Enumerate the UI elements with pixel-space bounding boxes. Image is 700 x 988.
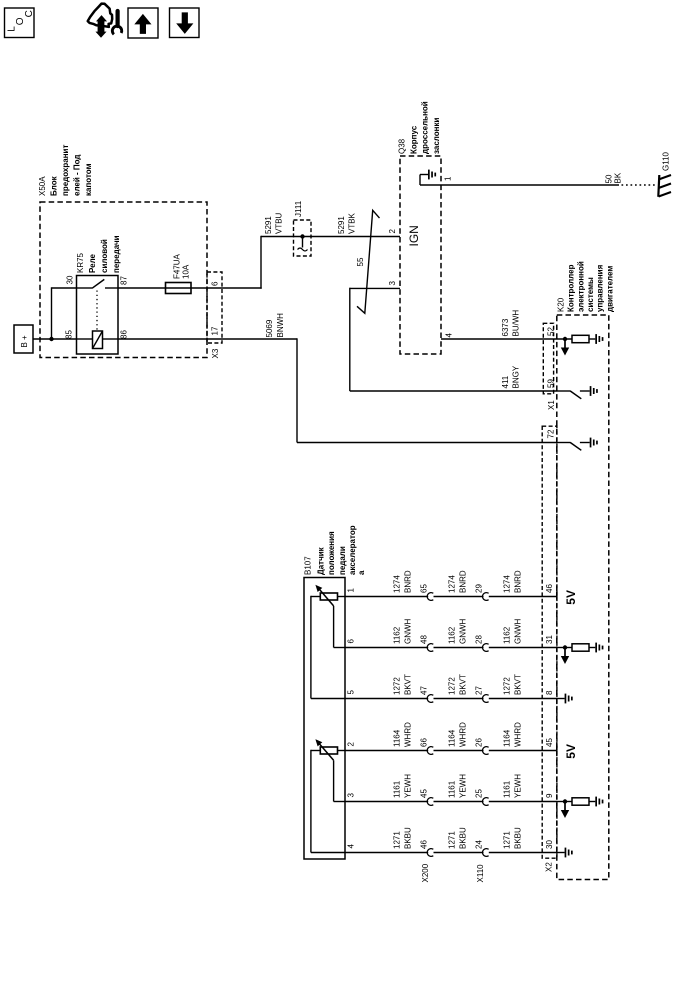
svg-text:WHRD: WHRD <box>514 722 523 747</box>
svg-text:KR75: KR75 <box>76 252 85 273</box>
Q38 internal ground <box>420 170 436 185</box>
connector X110 pin 29 <box>475 584 489 601</box>
svg-text:силовой: силовой <box>100 239 109 273</box>
svg-text:WHRD: WHRD <box>404 722 413 747</box>
K20 internal resistor to ground <box>557 643 603 664</box>
X50A label <box>38 145 93 196</box>
down arrow button <box>170 8 200 38</box>
svg-text:VTBU: VTBU <box>275 212 284 234</box>
svg-text:4: 4 <box>347 844 356 849</box>
relay coil <box>77 338 93 340</box>
connector X200 pin 48 <box>420 635 434 652</box>
svg-text:5291: 5291 <box>337 216 346 234</box>
svg-text:17: 17 <box>211 326 220 335</box>
svg-text:C: C <box>24 10 35 17</box>
svg-text:1271: 1271 <box>503 831 512 849</box>
svg-text:52: 52 <box>547 327 556 336</box>
svg-text:85: 85 <box>65 330 74 339</box>
wire 1271 BKBU row pin 4 <box>345 827 557 853</box>
svg-text:BKVT: BKVT <box>514 674 523 695</box>
wire junction up to relay contact <box>51 287 53 339</box>
svg-text:BNWH: BNWH <box>276 313 285 338</box>
svg-text:48: 48 <box>420 635 429 644</box>
svg-text:86: 86 <box>120 330 129 339</box>
svg-text:25: 25 <box>475 789 484 798</box>
label 50 BK <box>605 172 623 183</box>
relay KR75 box <box>77 276 119 355</box>
label 6373 BU/WH <box>501 310 521 337</box>
KR75 label <box>76 235 121 273</box>
svg-text:BNRD: BNRD <box>459 570 468 593</box>
svg-text:B107: B107 <box>304 556 313 575</box>
svg-text:капотом: капотом <box>84 163 93 196</box>
relay actuator dotted link <box>96 291 98 331</box>
chassis ground G110 <box>658 151 671 196</box>
svg-text:1272: 1272 <box>393 677 402 695</box>
svg-text:45: 45 <box>545 738 554 747</box>
relay contact <box>77 287 93 289</box>
svg-text:30: 30 <box>66 275 75 284</box>
5V rail <box>557 744 578 759</box>
connector X110 pin 28 <box>475 635 489 652</box>
potentiometer 1 wiper <box>316 586 345 648</box>
svg-text:BNRD: BNRD <box>514 570 523 593</box>
svg-text:26: 26 <box>475 738 484 747</box>
connector X1 dashed box (pins 52,59) <box>543 323 553 394</box>
svg-text:5V: 5V <box>564 590 578 605</box>
K20 pin 59 internal ground <box>557 386 598 399</box>
svg-text:1272: 1272 <box>448 677 457 695</box>
svg-text:WHRD: WHRD <box>459 722 468 747</box>
svg-text:X1: X1 <box>547 400 556 410</box>
wire Q38 pin3 to K20 pin59 (411 BNGY) <box>350 287 400 289</box>
battery B+ terminal <box>14 325 33 353</box>
svg-text:Q38: Q38 <box>398 138 407 154</box>
svg-text:1164: 1164 <box>448 729 457 747</box>
wire relay 87 to fuse <box>118 287 166 289</box>
svg-text:47: 47 <box>420 686 429 695</box>
Q38 label <box>398 101 442 154</box>
svg-text:1272: 1272 <box>503 677 512 695</box>
svg-text:4: 4 <box>445 333 454 338</box>
connector X200 pin 65 <box>420 584 434 601</box>
svg-text:положения: положения <box>327 531 336 575</box>
svg-text:1161: 1161 <box>448 780 457 798</box>
connector X200 pin 45 <box>420 789 434 806</box>
svg-text:BNGY: BNGY <box>512 365 521 388</box>
label 5069 BNWH <box>265 313 285 338</box>
connector X3 dashed box <box>207 272 222 343</box>
svg-text:31: 31 <box>545 635 554 644</box>
connector X200 pin 46 <box>420 840 434 857</box>
svg-text:педали: педали <box>338 546 347 575</box>
svg-text:IGN: IGN <box>407 225 421 246</box>
svg-text:двигателем: двигателем <box>606 266 615 312</box>
svg-text:1161: 1161 <box>393 780 402 798</box>
svg-text:X50A: X50A <box>38 176 47 196</box>
svg-text:24: 24 <box>475 840 484 849</box>
svg-text:1: 1 <box>444 176 453 181</box>
svg-text:1164: 1164 <box>503 729 512 747</box>
svg-text:1162: 1162 <box>503 626 512 644</box>
svg-text:YEWH: YEWH <box>404 774 413 798</box>
svg-text:GNWH: GNWH <box>459 618 468 644</box>
svg-text:управления: управления <box>596 264 605 312</box>
svg-text:1271: 1271 <box>393 831 402 849</box>
svg-text:5: 5 <box>347 690 356 695</box>
K20 pin 52 internal resistor to ground <box>561 334 604 355</box>
svg-text:а: а <box>357 570 366 575</box>
label 5291 VTBU <box>264 212 284 234</box>
K20 pin 72 internal ground <box>557 438 598 451</box>
svg-text:O: O <box>15 17 26 25</box>
svg-text:6: 6 <box>347 639 356 644</box>
wire relay 86 to K20 pin72 (5069 BNWH) <box>118 338 297 340</box>
svg-text:46: 46 <box>545 584 554 593</box>
svg-text:1162: 1162 <box>393 626 402 644</box>
potentiometer 2 <box>311 747 345 853</box>
wire Q38 pin1 to G110 <box>420 184 619 186</box>
svg-text:1162: 1162 <box>448 626 457 644</box>
connector X110 pin 27 <box>475 686 489 703</box>
svg-text:1161: 1161 <box>503 780 512 798</box>
svg-text:72: 72 <box>547 429 556 438</box>
fuse F47UA 10A <box>166 253 192 293</box>
LOC icon box <box>5 8 35 38</box>
svg-text:5V: 5V <box>564 744 578 759</box>
svg-text:X2: X2 <box>545 862 554 872</box>
svg-text:87: 87 <box>120 276 129 285</box>
K20 internal ground <box>557 848 573 858</box>
option divider arrow 55 <box>356 210 380 313</box>
svg-text:BKVT: BKVT <box>459 674 468 695</box>
svg-text:электронной: электронной <box>577 261 586 312</box>
svg-text:6373: 6373 <box>501 318 510 336</box>
wire 1272 BKVT row pin 5 <box>345 674 557 699</box>
accelerator pedal position sensor B107 box <box>304 578 345 860</box>
svg-text:1274: 1274 <box>393 575 402 593</box>
svg-text:X200: X200 <box>421 863 430 882</box>
wire 1161 YEWH row pin 3 <box>345 774 557 802</box>
svg-text:Корпус: Корпус <box>410 125 419 154</box>
wire fuse to connector X3 pin 6 <box>191 287 262 289</box>
svg-text:BKBU: BKBU <box>459 827 468 849</box>
svg-text:акселератор: акселератор <box>348 525 357 575</box>
svg-text:6: 6 <box>211 281 220 286</box>
connector X1/X2 tall dashed box <box>542 426 557 858</box>
fuse block X50A dashed box <box>40 202 207 358</box>
svg-text:K20: K20 <box>557 297 566 312</box>
svg-text:Датчик: Датчик <box>317 546 326 575</box>
svg-text:55: 55 <box>356 257 365 266</box>
svg-text:1271: 1271 <box>448 831 457 849</box>
svg-text:B +: B + <box>20 335 29 348</box>
svg-text:X110: X110 <box>476 864 485 883</box>
junction node <box>49 337 53 341</box>
ECM K20 dashed box <box>557 315 609 880</box>
svg-text:45: 45 <box>420 789 429 798</box>
svg-text:2: 2 <box>347 742 356 747</box>
connector X200 pin 66 <box>420 738 434 755</box>
svg-text:50: 50 <box>605 174 614 183</box>
connector X110 pin 25 <box>475 789 489 806</box>
potentiometer 1 <box>311 593 345 699</box>
svg-text:27: 27 <box>475 686 484 695</box>
svg-text:Реле: Реле <box>88 253 97 273</box>
svg-text:елей - Под: елей - Под <box>73 154 82 196</box>
svg-text:предохранит: предохранит <box>61 145 70 196</box>
throttle body Q38 dashed box <box>400 156 441 354</box>
svg-text:5291: 5291 <box>264 216 273 234</box>
connector X110 pin 26 <box>475 738 489 755</box>
svg-text:1: 1 <box>347 588 356 593</box>
wire Q38 pin4 to K20 pin52 (6373 BU/WH) <box>441 338 572 340</box>
svg-text:L: L <box>7 26 18 32</box>
up arrow button <box>128 8 158 38</box>
navigation jump icon (outline with double arrow and wrench) <box>88 4 122 37</box>
5V rail <box>557 590 578 605</box>
svg-text:G110: G110 <box>662 151 671 171</box>
svg-text:заслонки: заслонки <box>432 118 441 154</box>
svg-text:66: 66 <box>420 738 429 747</box>
svg-text:1274: 1274 <box>503 575 512 593</box>
svg-text:BKBU: BKBU <box>404 827 413 849</box>
svg-text:5069: 5069 <box>265 319 274 337</box>
connector X200 pin 47 <box>420 686 434 703</box>
connector X110 pin 24 <box>475 840 489 857</box>
svg-text:1164: 1164 <box>393 729 402 747</box>
svg-text:BKVT: BKVT <box>404 674 413 695</box>
K20 internal ground <box>557 694 573 704</box>
svg-text:передачи: передачи <box>112 235 121 273</box>
svg-text:BKBU: BKBU <box>514 827 523 849</box>
svg-text:59: 59 <box>547 379 556 388</box>
svg-text:411: 411 <box>501 375 510 388</box>
svg-text:GNWH: GNWH <box>514 618 523 644</box>
svg-text:2: 2 <box>388 229 397 234</box>
svg-text:YEWH: YEWH <box>514 774 523 798</box>
svg-text:BNRD: BNRD <box>404 570 413 593</box>
svg-text:28: 28 <box>475 635 484 644</box>
svg-text:BK: BK <box>614 172 623 183</box>
wire 1164 WHRD row pin 2 <box>345 722 557 751</box>
svg-text:3: 3 <box>388 281 397 286</box>
svg-text:8: 8 <box>545 690 554 695</box>
svg-text:X3: X3 <box>211 348 220 358</box>
wire 1162 GNWH row pin 6 <box>345 618 557 647</box>
potentiometer 2 wiper <box>316 740 345 801</box>
svg-text:1274: 1274 <box>448 575 457 593</box>
svg-text:46: 46 <box>420 840 429 849</box>
K20 label <box>557 261 615 312</box>
svg-text:10A: 10A <box>182 264 191 279</box>
wire 1274 BNRD row pin 1 <box>345 570 557 596</box>
svg-text:29: 29 <box>475 584 484 593</box>
svg-text:65: 65 <box>420 584 429 593</box>
label 411 BNGY <box>501 365 521 388</box>
svg-text:BU/WH: BU/WH <box>512 310 521 337</box>
svg-text:3: 3 <box>347 793 356 798</box>
svg-text:системы: системы <box>586 277 595 312</box>
svg-text:VTBK: VTBK <box>348 212 357 234</box>
B107 label <box>304 525 366 575</box>
svg-text:30: 30 <box>545 840 554 849</box>
wire 5291 VTBU riser <box>260 236 262 289</box>
svg-text:GNWH: GNWH <box>404 618 413 644</box>
splice J111 <box>294 220 312 256</box>
svg-text:F47UA: F47UA <box>173 253 182 279</box>
svg-text:дроссельной: дроссельной <box>421 101 430 154</box>
label 5291 VTBK <box>337 212 357 234</box>
svg-text:Контроллер: Контроллер <box>567 264 576 312</box>
K20 internal resistor to ground <box>557 797 603 818</box>
svg-text:J111: J111 <box>294 200 303 217</box>
wire B+ to relay coil <box>33 338 77 340</box>
svg-text:YEWH: YEWH <box>459 774 468 798</box>
svg-text:Блок: Блок <box>50 175 59 196</box>
svg-text:9: 9 <box>545 793 554 798</box>
